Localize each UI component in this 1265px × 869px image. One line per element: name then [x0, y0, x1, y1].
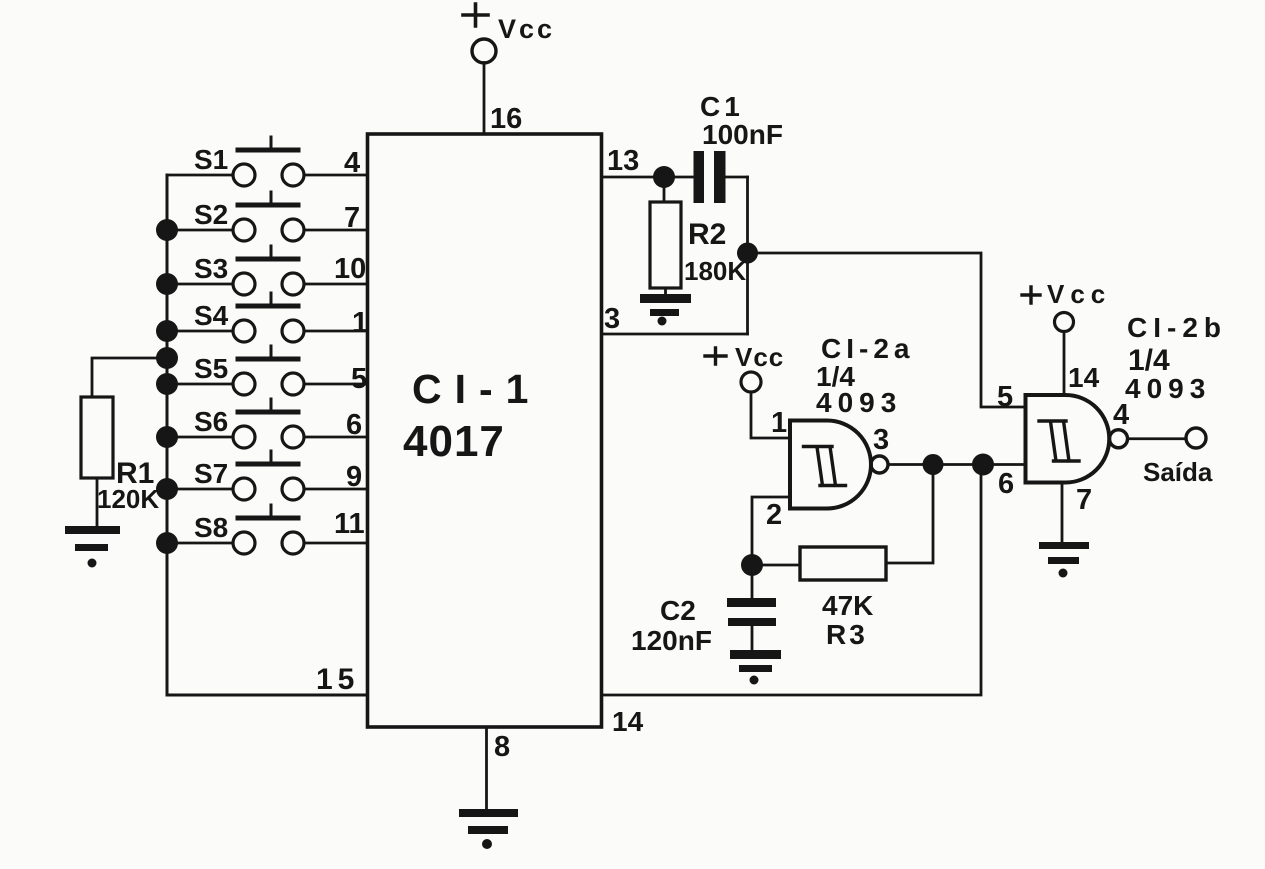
wire R1 to ground	[96, 478, 99, 526]
svg-text:7: 7	[344, 202, 360, 234]
wire Vcc to pin 14 of CI-2b	[1063, 332, 1066, 396]
terminal circle Vcc CI-2b	[1055, 313, 1074, 332]
wire S5 right to pin 5	[304, 383, 367, 386]
switch S7	[156, 451, 367, 500]
wire pin 2 to C2/R3 node	[752, 497, 790, 565]
switch S5	[156, 346, 367, 395]
svg-text:Vcc: Vcc	[498, 14, 555, 44]
switch S1 contacts	[233, 164, 255, 186]
wire S1 left	[167, 174, 233, 177]
wire S4 right to pin 1	[304, 330, 367, 333]
wire R3 right to output node	[886, 470, 933, 563]
svg-text:CI-2b: CI-2b	[1127, 312, 1227, 343]
svg-text:S4: S4	[194, 300, 229, 331]
wire CI-2a output to CI-2b pin 6	[888, 463, 1026, 466]
svg-text:C1: C1	[700, 91, 744, 122]
junction dot bus S7	[156, 478, 178, 500]
wire pin 7 to ground	[1061, 483, 1064, 543]
wire R2 to ground	[664, 288, 667, 294]
svg-text:3: 3	[873, 424, 889, 456]
svg-text:S6: S6	[194, 406, 228, 437]
svg-text:R3: R3	[826, 619, 868, 650]
switch S5 contacts	[233, 373, 255, 395]
wire S8 left	[167, 542, 233, 545]
switch S5 actuator bar	[238, 357, 298, 362]
wire S7 right to pin 9	[304, 488, 367, 491]
switch S2 contacts	[233, 219, 255, 241]
svg-text:47K: 47K	[822, 590, 873, 621]
junction dot output/R3	[923, 454, 944, 475]
ground under R1	[65, 526, 120, 568]
wire S2 left	[167, 229, 233, 232]
svg-text:6: 6	[998, 468, 1014, 500]
svg-text:2: 2	[766, 499, 782, 531]
svg-text:5: 5	[997, 381, 1013, 413]
switch S3 contacts	[233, 273, 255, 295]
wire S7 left	[167, 488, 233, 491]
wire node to C2	[751, 565, 754, 598]
svg-text:4017: 4017	[403, 417, 505, 466]
svg-text:S5: S5	[194, 353, 228, 384]
svg-text:14: 14	[612, 706, 644, 737]
ground under pin 7	[1039, 542, 1089, 578]
switch S1	[167, 137, 367, 186]
junction dot bus S3	[156, 273, 178, 295]
svg-text:CI-1: CI-1	[412, 366, 541, 412]
svg-text:3: 3	[604, 303, 620, 335]
junction dot bus S2	[156, 219, 178, 241]
switch S7 actuator bar	[238, 462, 298, 467]
svg-text:8: 8	[494, 731, 510, 763]
power +Vcc (pin 16 supply) plus sign	[463, 4, 488, 26]
ground under pin 8	[459, 809, 518, 849]
wire Vcc to pin 1	[751, 392, 789, 438]
svg-text:15: 15	[316, 663, 359, 696]
NAND gate CI-2b body	[1026, 395, 1110, 483]
wire C1 right to riser	[726, 176, 748, 179]
wire node to CI-2b pin 5	[748, 253, 1026, 407]
wire node to R3 left	[752, 564, 800, 567]
svg-text:13: 13	[607, 145, 639, 177]
junction dot C2/R3 node	[741, 554, 763, 576]
junction dot bus S5	[156, 373, 178, 395]
wire riser C1 to pin 3	[746, 177, 749, 334]
svg-text:120nF: 120nF	[631, 625, 712, 656]
svg-text:1: 1	[352, 307, 368, 339]
NAND gate CI-2a body	[790, 421, 871, 509]
wire Vcc to pin 16	[483, 63, 486, 135]
svg-text:7: 7	[1076, 484, 1092, 516]
svg-text:180K: 180K	[684, 256, 746, 286]
wire R2 top	[663, 177, 666, 202]
svg-text:4093: 4093	[816, 387, 902, 418]
wire pin 15 (bus bottom to IC)	[167, 694, 368, 697]
switch S6 actuator bar	[238, 410, 298, 415]
switch S6 contacts	[233, 426, 255, 448]
switch S4 contacts	[233, 320, 255, 342]
svg-text:Saída: Saída	[1143, 457, 1213, 487]
switch S7 contacts	[233, 478, 255, 500]
svg-text:S7: S7	[194, 458, 228, 489]
wire S3 right to pin 10	[304, 283, 367, 286]
svg-text:16: 16	[490, 103, 522, 135]
terminal circle Vcc CI-2a	[741, 372, 761, 392]
wire output to Saida terminal	[1128, 437, 1187, 440]
svg-text:100nF: 100nF	[702, 119, 783, 150]
switch S8	[156, 505, 367, 554]
svg-text:Vcc: Vcc	[735, 342, 784, 372]
wire bus left vertical	[166, 175, 169, 695]
switch S4 actuator bar	[238, 304, 298, 309]
junction dot output/pin14 riser	[972, 454, 994, 476]
power +Vcc (CI-2a) plus sign	[705, 348, 726, 364]
svg-text:5: 5	[351, 363, 367, 395]
wire pin 13 to C1	[602, 176, 694, 179]
svg-text:S8: S8	[194, 512, 228, 543]
svg-text:6: 6	[346, 409, 362, 441]
capacitor C2 plates	[727, 598, 776, 626]
svg-text:9: 9	[346, 461, 362, 493]
wire S6 right to pin 6	[304, 436, 367, 439]
inverter bubble CI-2a	[871, 456, 888, 473]
inverter bubble CI-2b	[1110, 430, 1128, 448]
switch S3	[156, 246, 367, 295]
wire bus to R1	[92, 358, 167, 397]
svg-text:C2: C2	[660, 595, 696, 626]
svg-text:4: 4	[1113, 399, 1129, 431]
switch S3 actuator bar	[238, 257, 298, 262]
switch S1 actuator bar	[238, 148, 298, 153]
svg-text:4093: 4093	[1125, 373, 1211, 404]
wire pin 8 to ground	[485, 727, 488, 809]
switch S6	[156, 399, 367, 448]
wire S8 right to pin 11	[304, 542, 367, 545]
svg-text:1: 1	[771, 407, 787, 439]
resistor R2	[650, 202, 681, 288]
svg-text:S3: S3	[194, 253, 228, 284]
wire S3 left	[167, 283, 233, 286]
svg-text:4: 4	[344, 147, 360, 179]
wire S4 left	[167, 330, 233, 333]
junction dot bus to R1	[156, 347, 178, 369]
svg-text:Vcc: Vcc	[1047, 279, 1111, 309]
terminal circle Saida	[1186, 428, 1206, 448]
svg-text:14: 14	[1068, 362, 1100, 393]
terminal circle Vcc top	[472, 39, 496, 63]
junction dot bus S8	[156, 532, 178, 554]
svg-text:R2: R2	[688, 218, 726, 251]
resistor R1	[81, 397, 113, 478]
svg-text:10: 10	[334, 253, 366, 285]
svg-text:CI-2a: CI-2a	[821, 333, 914, 364]
IC U1 CI-1 4017 box	[368, 134, 602, 727]
wire S1 right to pin 4	[304, 174, 367, 177]
power +Vcc (CI-2b) plus sign	[1022, 287, 1040, 303]
svg-text:S1: S1	[194, 144, 228, 175]
junction dot bus S6	[156, 426, 178, 448]
schmitt hysteresis symbol CI-2a	[804, 447, 846, 486]
switch S8 contacts	[233, 532, 255, 554]
wire S6 left	[167, 436, 233, 439]
svg-text:120K: 120K	[97, 484, 159, 514]
switch S8 actuator bar	[238, 516, 298, 521]
switch S2	[156, 192, 367, 241]
schmitt hysteresis symbol CI-2b	[1039, 421, 1079, 461]
svg-text:S2: S2	[194, 199, 228, 230]
svg-text:11: 11	[334, 508, 365, 540]
junction dot bus S4	[156, 320, 178, 342]
wire pin 3	[602, 333, 748, 336]
junction dot node pin13/R2/C1	[653, 166, 675, 188]
wire pin 14 (IC to junction under gate output)	[602, 470, 982, 695]
capacitor C1 plates	[694, 151, 726, 203]
ground under C2	[730, 650, 781, 685]
wire C2 to ground	[751, 626, 754, 650]
switch S2 actuator bar	[238, 203, 298, 208]
ground under R2	[640, 294, 691, 326]
wire S2 right to pin 7	[304, 229, 367, 232]
resistor R3	[800, 547, 886, 580]
junction dot node R2/riser	[737, 243, 758, 264]
switch S4	[156, 293, 368, 342]
wire S5 left	[167, 383, 233, 386]
